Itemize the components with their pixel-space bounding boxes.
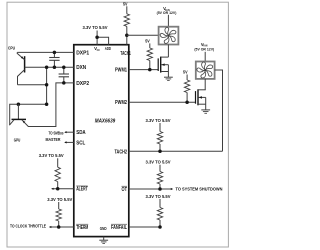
transistor GPU base bar: [12, 118, 27, 120]
resistor R-ALERT: [57, 158, 59, 167]
svg-text:3.3V TO 5.5V: 3.3V TO 5.5V: [47, 197, 72, 202]
wire fan2 to Q2 drain: [204, 79, 206, 90]
svg-text:THERM: THERM: [76, 225, 88, 231]
svg-text:ADD: ADD: [105, 46, 111, 51]
svg-text:TO CLOCK THROTTLE: TO CLOCK THROTTLE: [10, 223, 46, 228]
wire fan1 power: [167, 15, 169, 27]
transistor Q2 gate bar: [195, 91, 197, 104]
transistor GPU collector: [9, 120, 14, 125]
svg-text:3.3V TO 5.5V: 3.3V TO 5.5V: [146, 194, 171, 199]
resistor R-TACH1: [126, 6, 128, 14]
transistor Q1 body arrow: [161, 64, 168, 66]
transistor CPU collector: [18, 70, 25, 85]
wire FANFAIL: [129, 226, 160, 228]
wire PWM2: [129, 101, 196, 103]
svg-text:OT: OT: [122, 187, 128, 193]
wire SDA stub: [65, 131, 74, 133]
node TACH2: [158, 150, 162, 154]
wire fan2 power: [204, 52, 206, 62]
node PWM1 gate: [148, 68, 152, 72]
resistor R-THERM: [58, 202, 60, 209]
fan FAN1: [159, 27, 179, 45]
node DXN-C1: [53, 66, 57, 70]
wire TACH1 to fan1: [127, 34, 159, 36]
ground Q1: [164, 76, 173, 78]
node FANFAIL: [158, 225, 162, 229]
svg-text:3.3V TO 5.5V: 3.3V TO 5.5V: [146, 160, 171, 165]
transistor Q1 drain: [161, 56, 169, 58]
IC U1 MAX6639 body: [74, 45, 129, 237]
resistor R-OT: [159, 165, 161, 172]
figure frame: [7, 2, 228, 247]
svg-text:PWM2: PWM2: [115, 100, 127, 106]
wire fan2 tach: [215, 70, 223, 151]
wire ALERT: [52, 188, 74, 190]
resistor R-FANFAIL: [159, 199, 161, 208]
transistor Q1 source: [161, 71, 169, 73]
svg-text:5V: 5V: [123, 1, 128, 6]
transistor Q2 source: [198, 103, 206, 105]
svg-text:FANFAIL: FANFAIL: [111, 225, 127, 231]
node GPU base stub: [17, 102, 21, 106]
wire TACH2: [129, 150, 223, 152]
resistor R-TACH2: [159, 123, 161, 132]
svg-text:MASTER: MASTER: [46, 137, 61, 142]
node DXP2-C2: [62, 81, 66, 85]
svg-text:TO SMBus: TO SMBus: [49, 131, 64, 136]
node THERM: [57, 225, 61, 229]
node collector junction: [45, 83, 49, 87]
wire PWM1: [129, 69, 158, 71]
ground GND: [99, 239, 108, 241]
svg-text:3.3V TO 5.5V: 3.3V TO 5.5V: [146, 118, 171, 123]
svg-text:TO SYSTEM SHUTDOWN: TO SYSTEM SHUTDOWN: [176, 187, 223, 192]
resistor R-Q2: [186, 75, 188, 81]
node VCC-ADD: [95, 36, 99, 40]
fan FAN2: [196, 62, 215, 79]
wire VCC: [96, 31, 98, 45]
capacitor C1 stubs: [53, 52, 55, 57]
transistor CPU base bar: [24, 56, 26, 72]
transistor GPU emitter: [22, 120, 30, 127]
svg-text:CPU: CPU: [8, 45, 15, 50]
wire GPU base stub: [17, 104, 19, 119]
transistor Q2 body arrow: [198, 96, 205, 98]
wire THERM: [50, 226, 74, 228]
wire CPU collector: [18, 84, 47, 86]
transistor Q1 channel bar: [160, 57, 162, 73]
ground Q2: [201, 109, 210, 111]
wire CPU emitter to DXP1: [17, 51, 74, 53]
svg-text:TACH1: TACH1: [120, 51, 131, 57]
svg-text:ALERT: ALERT: [76, 187, 88, 193]
svg-text:MAX6639: MAX6639: [95, 119, 116, 125]
node PWM2 gate: [185, 101, 189, 105]
wire SCL stub: [65, 141, 74, 143]
capacitor C2: [59, 73, 69, 75]
transistor Q2 drain: [198, 89, 206, 91]
node DXN branch: [45, 66, 49, 70]
svg-text:GND: GND: [100, 226, 107, 231]
wire DXN extension: [46, 67, 48, 104]
svg-text:5V: 5V: [183, 69, 188, 74]
wire OT: [129, 188, 160, 190]
node DXN-C2: [62, 66, 66, 70]
wire fan1 to Q1 drain: [167, 45, 169, 58]
svg-text:3.3V TO 5.5V: 3.3V TO 5.5V: [83, 25, 108, 30]
wire CPU base to DXN: [25, 66, 74, 68]
svg-text:GPU: GPU: [14, 137, 21, 142]
transistor Q2 channel bar: [197, 89, 199, 105]
svg-text:PWM1: PWM1: [115, 68, 127, 74]
svg-text:(5V OR 12V): (5V OR 12V): [194, 47, 214, 52]
svg-text:TACH2: TACH2: [115, 149, 128, 155]
wire GND: [103, 237, 105, 241]
svg-text:DXP2: DXP2: [76, 81, 89, 87]
node OT: [158, 187, 162, 191]
svg-text:SDA: SDA: [76, 130, 86, 136]
node TACH1: [125, 33, 129, 37]
wire DXP2 to GPU emitter: [30, 83, 74, 127]
transistor Q1 gate bar: [157, 58, 159, 71]
node ALERT: [56, 187, 60, 191]
svg-text:(5V OR 12V): (5V OR 12V): [157, 10, 177, 15]
svg-text:SCL: SCL: [76, 140, 85, 146]
node GPU net: [45, 102, 49, 106]
resistor R-Q1: [149, 43, 151, 48]
svg-text:5V: 5V: [145, 38, 150, 43]
capacitor C2 stubs: [63, 67, 65, 74]
node DXP1-C1: [53, 51, 57, 55]
wire OT shutdown: [160, 188, 172, 190]
wire GPU base net: [10, 104, 47, 124]
svg-text:DXP1: DXP1: [76, 50, 89, 56]
svg-text:3.3V TO 5.5V: 3.3V TO 5.5V: [39, 153, 64, 158]
transistor CPU emitter: [17, 52, 24, 59]
svg-text:DXN: DXN: [76, 65, 86, 71]
capacitor C1: [49, 57, 59, 59]
wire ADD branch: [97, 37, 109, 44]
